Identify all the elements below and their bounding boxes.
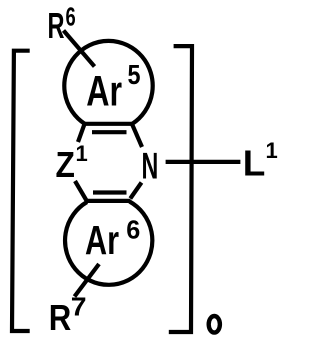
svg-text:N: N bbox=[142, 145, 159, 186]
bond R6 to Ar5 bbox=[64, 31, 95, 67]
bond top-right vertex to N bbox=[132, 124, 142, 147]
svg-text:7: 7 bbox=[71, 291, 87, 321]
ring top double bond inner line bbox=[92, 130, 127, 134]
subscript o (repeat index) bbox=[209, 316, 220, 333]
ring top edge bond bbox=[84, 122, 133, 126]
bond Z1 to bottom-left vertex bbox=[75, 181, 87, 201]
ring Ar6 circle bbox=[65, 202, 152, 285]
bond top-left vertex to Z1 bbox=[78, 124, 85, 142]
svg-text:5: 5 bbox=[128, 59, 141, 90]
bond N to bottom-right vertex bbox=[130, 183, 141, 199]
ring Ar5 circle bbox=[64, 41, 152, 124]
ring bottom edge bond bbox=[86, 199, 131, 203]
right bracket bbox=[169, 46, 192, 332]
bond R7 to Ar6 bbox=[75, 264, 100, 297]
svg-text:Ar: Ar bbox=[86, 67, 122, 115]
svg-text:6: 6 bbox=[126, 214, 140, 244]
left bracket bbox=[12, 51, 30, 331]
svg-text:Ar: Ar bbox=[85, 217, 119, 263]
svg-text:6: 6 bbox=[66, 1, 76, 31]
ring bottom double bond inner line bbox=[93, 190, 127, 194]
svg-text:Z: Z bbox=[56, 144, 75, 185]
bond N to L1 bbox=[166, 160, 241, 164]
svg-text:1: 1 bbox=[76, 141, 88, 166]
svg-text:1: 1 bbox=[266, 138, 278, 163]
svg-text:R: R bbox=[49, 297, 72, 338]
svg-text:L: L bbox=[243, 143, 266, 184]
svg-text:R: R bbox=[48, 5, 65, 46]
